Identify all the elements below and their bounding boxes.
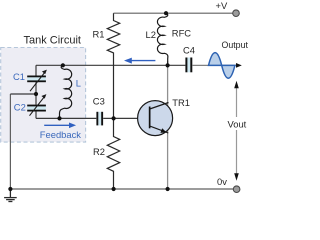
svg-text:+V: +V (216, 0, 228, 11)
svg-text:Feedback: Feedback (40, 129, 81, 140)
svg-text:R1: R1 (93, 28, 105, 39)
svg-text:0v: 0v (217, 176, 227, 187)
svg-text:L: L (76, 77, 81, 88)
svg-text:RFC: RFC (172, 28, 191, 39)
svg-text:Output: Output (222, 40, 249, 50)
svg-text:Tank Circuit: Tank Circuit (24, 34, 81, 46)
svg-text:TR1: TR1 (172, 97, 190, 108)
svg-text:C4: C4 (183, 44, 195, 55)
svg-text:Vout: Vout (228, 119, 247, 130)
svg-text:C2: C2 (14, 102, 26, 113)
svg-text:C3: C3 (93, 96, 105, 107)
svg-text:L2: L2 (146, 29, 156, 40)
svg-text:R2: R2 (93, 146, 105, 157)
svg-text:C1: C1 (13, 71, 25, 82)
